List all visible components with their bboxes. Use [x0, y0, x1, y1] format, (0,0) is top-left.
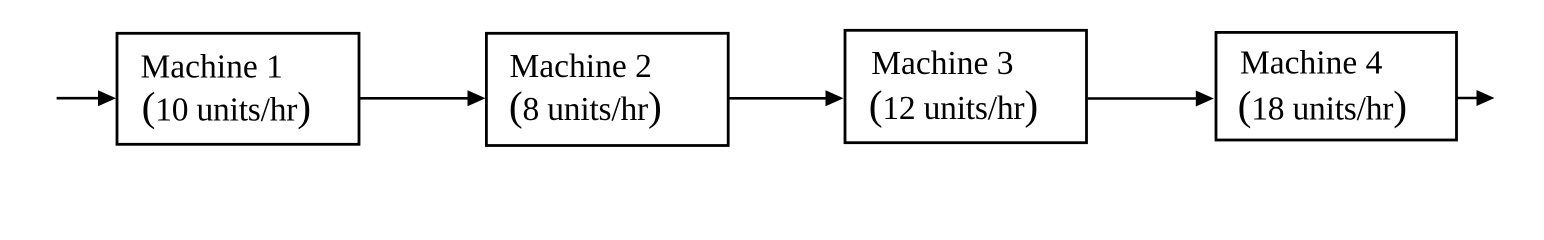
svg-text:(18 units/hr): (18 units/hr): [1238, 82, 1407, 129]
svg-text:Machine 2: Machine 2: [510, 48, 652, 85]
box Machine 4: [1216, 32, 1457, 140]
svg-text:(10 units/hr): (10 units/hr): [142, 84, 311, 131]
wire arrow box1 to box2: [360, 90, 486, 106]
svg-text:(12 units/hr): (12 units/hr): [869, 82, 1038, 129]
wire arrow box2 to box3: [729, 90, 844, 106]
svg-text:Machine 1: Machine 1: [141, 49, 283, 86]
output arrow: [1457, 90, 1495, 106]
box Machine 1: [117, 33, 359, 144]
wire arrow box3 to box4: [1088, 91, 1214, 107]
svg-text:Machine 4: Machine 4: [1240, 45, 1383, 82]
svg-text:Machine 3: Machine 3: [871, 45, 1013, 82]
svg-text:(8 units/hr): (8 units/hr): [509, 83, 662, 130]
input arrow: [57, 90, 116, 106]
box Machine 2: [486, 33, 728, 145]
box Machine 3: [845, 30, 1087, 142]
